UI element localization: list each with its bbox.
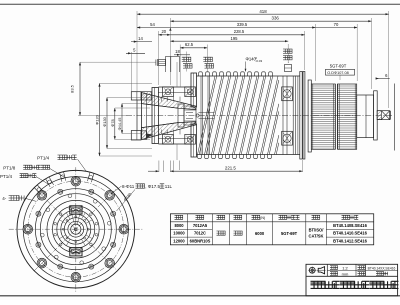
coolant outlet boss <box>285 65 292 72</box>
label coolant inlet <box>203 57 207 61</box>
svg-text:221.5: 221.5 <box>225 166 237 171</box>
svg-text:18: 18 <box>175 49 180 54</box>
dim 54 / 339.5 / 70 chained line <box>137 27 357 29</box>
taper cone shaft upper (hatched) <box>141 93 196 110</box>
svg-text:7012C: 7012C <box>194 231 206 236</box>
dim 418 <box>137 13 389 15</box>
svg-text:12000: 12000 <box>173 238 185 243</box>
wire: spindle centerline <box>126 115 393 117</box>
svg-text:BT40.1408.SE416: BT40.1408.SE416 <box>333 223 367 228</box>
dim 6 (right) <box>378 78 390 80</box>
dim phi78 <box>114 108 116 140</box>
svg-text:mm: mm <box>342 272 349 277</box>
wire: housing verticals <box>176 62 178 87</box>
svg-text:BT/ISO/: BT/ISO/ <box>309 227 325 232</box>
rotary union line <box>394 84 396 151</box>
svg-text:195: 195 <box>231 36 239 41</box>
svg-text:, Φ17.5: , Φ17.5 <box>145 184 160 189</box>
spiral cooling ribbons (double diagonal lines) <box>198 76 279 155</box>
svg-text:6000: 6000 <box>255 231 265 236</box>
svg-text:BT40.14XX.SE416: BT40.14XX.SE416 <box>368 266 396 270</box>
label coolant outlet <box>283 49 287 53</box>
svg-text:Φ130: Φ130 <box>102 116 107 126</box>
circle r23.3 <box>53 206 100 253</box>
circle r11.5 <box>64 218 87 241</box>
svg-text:5GT-69T: 5GT-69T <box>330 64 347 69</box>
pulley band 1 (toothed) <box>311 84 335 149</box>
collet / drawbar gripper <box>178 104 184 127</box>
center dot and spokes <box>75 228 78 231</box>
svg-text:418: 418 <box>259 9 267 14</box>
svg-text:10000: 10000 <box>173 231 185 236</box>
border frame bottom <box>0 295 400 297</box>
dim 221.5 <box>170 170 302 172</box>
svg-text:O.DΦ107.08: O.DΦ107.08 <box>327 71 348 75</box>
svg-text:-0.03: -0.03 <box>255 59 262 63</box>
front bearing B1 bottom <box>163 134 174 144</box>
drive key bottom <box>70 248 82 256</box>
svg-text:7012A5: 7012A5 <box>193 223 208 228</box>
circle r7.9 <box>68 221 84 237</box>
dim 336 <box>170 20 371 22</box>
nose face line <box>136 100 138 131</box>
svg-text:54: 54 <box>150 22 155 27</box>
grease hose fitting on housing top <box>155 60 157 66</box>
svg-text:14: 14 <box>138 36 143 41</box>
dim 195 <box>170 40 288 42</box>
dim 14 <box>131 41 152 43</box>
company name: Shanghai YaZi Industrial Development Co Ltd <box>311 281 318 288</box>
drawbar rod lines <box>199 112 215 114</box>
nose clamp block bottom <box>131 131 141 141</box>
svg-text:Φ78: Φ78 <box>110 119 115 126</box>
svg-text:11L: 11L <box>165 184 173 189</box>
wire: projection ticks <box>158 161 160 173</box>
dim 228.5 / 20 <box>158 34 304 36</box>
front bearing B1 top <box>163 87 174 97</box>
circle r40.5 <box>35 189 116 270</box>
label grease inlet <box>182 57 186 61</box>
dim phi130 <box>106 98 108 149</box>
circle r19 <box>57 210 95 248</box>
dim 5 <box>126 52 145 54</box>
spindle body core <box>197 75 280 77</box>
circle r15 <box>61 214 91 244</box>
8 small holes r34 <box>107 221 111 225</box>
front view centerline horizontal <box>9 228 143 230</box>
svg-text:83.5: 83.5 <box>70 84 75 93</box>
svg-text:4-: 4- <box>2 196 7 201</box>
front view outer circle <box>17 170 135 288</box>
8 mounting holes phi17.5/phi11 (triple circles) <box>119 224 129 234</box>
dim phi44.45 <box>121 104 123 134</box>
svg-text:(N): (N) <box>260 216 266 220</box>
front view diagonal centerlines <box>34 188 117 271</box>
dim 83.5 vertical <box>79 62 81 115</box>
cooling fin crests top/bottom <box>198 72 273 159</box>
drawbar end bearing (x-box) <box>377 111 390 120</box>
svg-text:8000: 8000 <box>174 223 184 228</box>
taper bore outline <box>141 104 178 109</box>
rear thin disc <box>374 91 378 140</box>
taper cone shaft lower (hatched) <box>141 122 196 140</box>
rear bearing top <box>282 87 293 101</box>
front cover plate <box>191 73 197 107</box>
svg-text:5GT-69T: 5GT-69T <box>281 231 298 236</box>
circle r52.6 <box>23 177 128 282</box>
circle r5.1 <box>71 224 81 234</box>
svg-text:PT1/4: PT1/4 <box>0 174 13 179</box>
svg-text:Φ120: Φ120 <box>95 114 100 124</box>
svg-text:339.5: 339.5 <box>237 22 248 27</box>
svg-text:PT1/4: PT1/4 <box>37 155 50 160</box>
front bearing B2 bottom <box>185 134 196 144</box>
svg-text:228.5: 228.5 <box>234 29 245 34</box>
title block <box>306 264 398 296</box>
front bearing B2 top <box>185 87 196 97</box>
svg-text:BT40.1412.SE416: BT40.1412.SE416 <box>333 238 367 243</box>
12 tiny holes r21.3 <box>95 222 98 225</box>
svg-text:70: 70 <box>334 22 339 27</box>
dim 62.5 <box>180 47 207 49</box>
first-angle projection symbol <box>309 267 315 273</box>
svg-text:62.5: 62.5 <box>185 42 194 47</box>
svg-text:336: 336 <box>272 15 280 20</box>
svg-text:20: 20 <box>161 29 166 34</box>
rear housing rings <box>279 75 300 77</box>
drive key top <box>70 206 82 214</box>
pulley band 2 (toothed) <box>338 84 357 149</box>
svg-text:Φ44.45: Φ44.45 <box>117 118 122 131</box>
pulley retaining ring <box>308 80 311 152</box>
svg-text:CAT/SK: CAT/SK <box>309 233 324 238</box>
8 tiny holes r12.5 <box>87 228 89 230</box>
pulley center flange <box>334 84 336 149</box>
nose flange plate <box>152 88 158 144</box>
svg-text:BT40.1410.SE416: BT40.1410.SE416 <box>333 231 367 236</box>
radial ports at rim (top area) <box>91 173 94 182</box>
front view centerline vertical <box>75 167 77 293</box>
dim phi120 <box>99 83 101 156</box>
border frame top <box>0 3 400 5</box>
svg-text:60BNR10S: 60BNR10S <box>190 238 211 243</box>
rear bearing bottom <box>282 131 293 145</box>
spec table <box>170 214 373 245</box>
circle r28.8 <box>47 200 105 258</box>
rear end labyrinth discs <box>300 72 302 160</box>
bolt circle phi180 (dash-dot) <box>28 181 124 277</box>
front bearing housing top <box>158 86 191 88</box>
svg-text:PT1/8: PT1/8 <box>3 166 16 171</box>
nose clamp block top <box>131 92 141 100</box>
rear shaft cylinder <box>357 95 374 138</box>
svg-text:8-Φ11: 8-Φ11 <box>122 184 135 189</box>
8 medium holes r40.5 <box>111 211 116 216</box>
dim 18 <box>174 54 190 56</box>
circle r35.5 <box>40 194 111 265</box>
svg-text:1:2: 1:2 <box>342 266 348 271</box>
